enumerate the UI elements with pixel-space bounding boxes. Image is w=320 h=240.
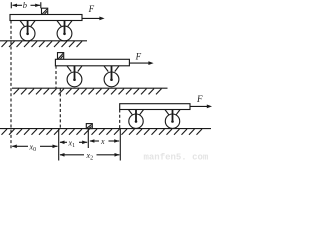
block on cart 2 xyxy=(58,53,64,60)
cart 2 left wheel xyxy=(67,66,82,87)
dimension b ticks xyxy=(11,2,41,8)
cart 1 right wheel xyxy=(57,21,72,41)
dimension x0 arrows xyxy=(12,145,58,149)
dimension boundary line below ground (x0/x1/x2 bound) xyxy=(58,129,60,161)
cart 2 right wheel xyxy=(104,66,119,87)
svg-text:x0: x0 xyxy=(29,142,37,153)
cart 1 platform xyxy=(10,15,82,21)
dashed reference line at cart 2 rear (upper) xyxy=(55,66,57,88)
dimension x1 arrows xyxy=(60,141,88,145)
svg-text:F: F xyxy=(196,94,203,104)
svg-text:manfen5. com: manfen5. com xyxy=(144,153,209,163)
dimension boundary line at cart 3 rear (below ground) xyxy=(119,129,121,161)
svg-text:F: F xyxy=(135,51,142,61)
svg-text:x1: x1 xyxy=(68,138,76,149)
svg-text:F: F xyxy=(88,4,95,14)
cart 2 platform xyxy=(55,59,129,66)
dashed reference line at cart 3 rear xyxy=(119,110,121,129)
cart 3 platform xyxy=(120,104,190,110)
svg-text:x2: x2 xyxy=(86,151,94,162)
dashed reference line at cart 2 rear (lower) xyxy=(59,88,61,128)
dimension b arrows xyxy=(12,4,40,7)
ground level 2 line xyxy=(12,87,168,89)
force arrow F (cart 1) xyxy=(83,17,105,21)
ground level 1 line xyxy=(0,40,87,42)
force arrow F (cart 2) xyxy=(130,61,154,65)
dimension x arrows xyxy=(89,139,119,143)
bottom ground hatching xyxy=(2,129,203,135)
tick below bottom block (x1/x bound) xyxy=(87,129,89,148)
block on bottom ground xyxy=(86,124,92,129)
dimension x2 arrows xyxy=(60,153,120,157)
cart 1 left wheel xyxy=(20,21,35,41)
cart 3 left wheel xyxy=(128,110,143,129)
svg-text:x: x xyxy=(100,137,105,146)
cart 3 right wheel xyxy=(165,110,180,129)
dashed reference line at cart 1 rear (x0 left bound) xyxy=(10,21,12,149)
svg-text:b: b xyxy=(23,0,27,10)
ground level 1 hatching xyxy=(2,41,83,47)
ground level 2 hatching xyxy=(14,89,162,95)
force arrow F (cart 3) xyxy=(190,105,212,109)
block on cart 1 xyxy=(42,8,48,14)
bottom ground line xyxy=(0,128,211,130)
